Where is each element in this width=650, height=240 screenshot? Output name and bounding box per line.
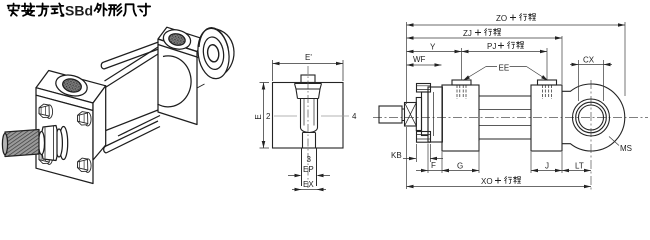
port thread dashed cap — [543, 85, 552, 99]
label 4 with leader — [321, 115, 349, 117]
XO dim line — [407, 186, 592, 188]
tie rod upper (between boxes) — [101, 42, 160, 69]
corner nuts — [39, 104, 53, 118]
cap block — [531, 85, 562, 151]
tie rod lower (between boxes) — [104, 121, 160, 153]
eye bore circles — [579, 105, 604, 130]
washer at nut front — [39, 132, 45, 155]
cylinder tube — [479, 96, 531, 139]
svg-text:MS: MS — [620, 144, 632, 153]
cap rear ext — [561, 36, 563, 173]
svg-text:LT: LT — [575, 162, 584, 171]
head flange plate — [428, 87, 442, 142]
head block — [442, 85, 479, 151]
svg-text:4: 4 — [352, 112, 357, 121]
eye hole — [207, 44, 220, 63]
rod wrench flats box — [405, 103, 417, 127]
KB dim line — [403, 158, 443, 160]
svg-text:ZJ: ZJ — [463, 29, 472, 38]
F/KB ext — [417, 144, 431, 174]
svg-text:KB: KB — [391, 151, 402, 160]
tube bottom silhouette near rear box — [118, 116, 160, 137]
ZJ dim line — [407, 37, 563, 39]
piston rod collar washers — [59, 127, 67, 160]
gland nut below top edge — [295, 84, 322, 99]
svg-text:XO: XO — [481, 177, 493, 186]
horizontal centerline — [373, 117, 648, 119]
extension and dimension lines — [403, 22, 625, 189]
rod column — [301, 99, 318, 133]
E dimension — [260, 83, 270, 149]
port boss head — [452, 80, 471, 85]
EE leaders — [463, 67, 548, 81]
CX ext lines — [579, 60, 604, 101]
F G J LT dim line — [416, 170, 591, 172]
centerline vertical middle — [307, 66, 309, 188]
port boss cap — [538, 80, 557, 85]
front head box — [36, 71, 106, 184]
left reference extension line — [406, 22, 408, 189]
svg-text:PJ: PJ — [487, 42, 496, 51]
port thread dashed head — [457, 85, 466, 99]
WF dim line — [407, 64, 442, 66]
port1 centerline ext — [461, 48, 463, 80]
lower rod section — [303, 133, 316, 149]
eye tang lines below square — [302, 148, 317, 186]
svg-text:CX: CX — [583, 56, 595, 65]
cylinder tube (between boxes) — [105, 47, 159, 131]
svg-text:ZO: ZO — [496, 14, 507, 23]
svg-text:2: 2 — [266, 112, 271, 121]
svg-text:F: F — [431, 161, 436, 170]
threaded rod (hatched) — [2, 130, 39, 157]
square flange outline — [273, 83, 344, 149]
rod neck — [402, 109, 405, 121]
svg-text:SBd: SBd — [65, 3, 93, 19]
ZO dim line — [407, 24, 626, 26]
piston rod thread — [379, 106, 402, 123]
tie rod nut bottom — [417, 132, 431, 143]
J ext — [530, 152, 532, 173]
tube inner lines — [479, 110, 531, 126]
E' dimension — [273, 60, 344, 81]
title: 安装方式SBd外形尺寸 — [8, 3, 64, 15]
svg-text:WF: WF — [413, 55, 426, 64]
arrows — [407, 23, 414, 27]
svg-text:E': E' — [305, 53, 312, 62]
rear cap box — [158, 27, 206, 124]
Y + PJ dim line — [407, 51, 548, 53]
svg-text:E: E — [254, 114, 263, 119]
port boss above top edge — [301, 75, 315, 83]
svg-text:Y: Y — [430, 43, 436, 52]
eye ring thickness silhouette — [213, 29, 234, 78]
front port — [53, 72, 89, 100]
gland step A — [416, 98, 421, 131]
eye ring mid ellipse — [201, 36, 225, 71]
svg-text:J: J — [545, 162, 549, 171]
CX dim line — [570, 64, 612, 66]
rear port — [161, 27, 192, 52]
eye right ext — [624, 22, 626, 96]
gland step B — [422, 92, 429, 136]
port2 centerline ext — [546, 48, 548, 80]
svg-text:3: 3 — [307, 155, 312, 164]
eye bracket behind plate — [197, 55, 205, 88]
svg-text:EP: EP — [303, 165, 314, 174]
MS leader — [609, 137, 619, 146]
eye body — [562, 84, 625, 151]
eye vertical centerline — [590, 80, 592, 190]
eye ring outer ellipse — [195, 26, 232, 80]
tie rod nut top — [417, 84, 431, 93]
svg-text:EX: EX — [303, 180, 314, 189]
rear tube end circle on cap face — [158, 56, 192, 107]
svg-text:G: G — [457, 162, 463, 171]
rod hex nut — [42, 126, 57, 161]
svg-text:EE: EE — [499, 64, 510, 73]
eye ring top chamfer arc — [199, 28, 228, 49]
G ext — [442, 141, 479, 173]
